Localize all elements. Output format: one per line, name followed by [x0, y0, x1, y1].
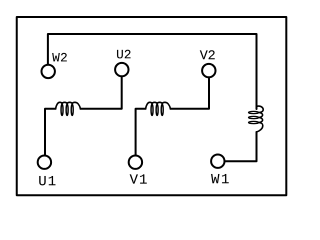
wire L3 bottom to W1	[225, 132, 256, 161]
terminal U1	[38, 156, 51, 169]
inductor L1 phase U (horizontal coil)	[56, 102, 81, 115]
inductor L2 phase V (horizontal coil)	[146, 102, 171, 115]
wire V2 down to L2 right lead	[170, 78, 209, 109]
wire L2 left lead to V1	[136, 109, 146, 155]
terminal W2	[42, 65, 55, 78]
wire W2 top rail to L3	[48, 34, 257, 109]
label U1	[39, 176, 55, 185]
terminal W1	[211, 155, 224, 168]
terminal V1	[129, 156, 142, 169]
terminal V2	[202, 64, 215, 77]
wire U2 down to L1 right lead	[80, 77, 121, 109]
label U2	[117, 50, 131, 59]
inductor L3 phase W (vertical coil)	[249, 106, 264, 132]
label W1	[211, 174, 229, 183]
label W2	[52, 53, 67, 61]
label V2	[200, 50, 215, 59]
terminal box outline	[17, 17, 287, 195]
terminal U2	[115, 63, 128, 76]
label V1	[130, 174, 147, 183]
wire L1 left lead to U1	[45, 109, 56, 155]
